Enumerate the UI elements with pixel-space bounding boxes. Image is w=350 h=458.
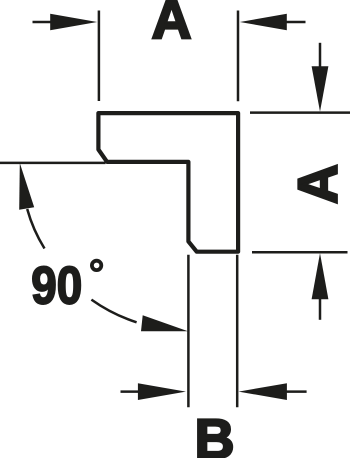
extension line top-left — [98, 11, 101, 102]
dimension arrow bottom-right (points left) — [239, 383, 307, 400]
svg-text:A: A — [151, 0, 191, 51]
extension line B-right (vertical) — [236, 255, 239, 407]
dimension arrow bottom-left (points right) — [121, 383, 186, 400]
extension line right-bottom (horizontal) — [252, 251, 348, 254]
dimension arrow right side (points up) — [312, 253, 329, 320]
extension line B-left (vertical) — [187, 255, 190, 407]
extension line right-top (horizontal) — [250, 111, 350, 114]
dimension arrow top-right (points left) — [240, 14, 306, 30]
svg-text:A: A — [287, 164, 349, 204]
dimension arrow right side (points down) — [312, 43, 329, 112]
angle arrowhead lower (points right to extension line) — [141, 315, 188, 331]
angle arc lower segment — [91, 300, 136, 323]
dimension arrow top-left (points right) — [33, 14, 98, 30]
angle arc upper segment — [27, 209, 44, 249]
svg-text:90: 90 — [31, 255, 82, 315]
angle arrowhead upper (points up to reference line) — [19, 163, 34, 210]
L-profile outline — [98, 113, 238, 252]
horizontal reference line (left surface extension) — [0, 162, 106, 165]
extension line top-right — [237, 11, 240, 102]
label degree symbol — [92, 261, 101, 270]
svg-text:B: B — [194, 408, 234, 458]
